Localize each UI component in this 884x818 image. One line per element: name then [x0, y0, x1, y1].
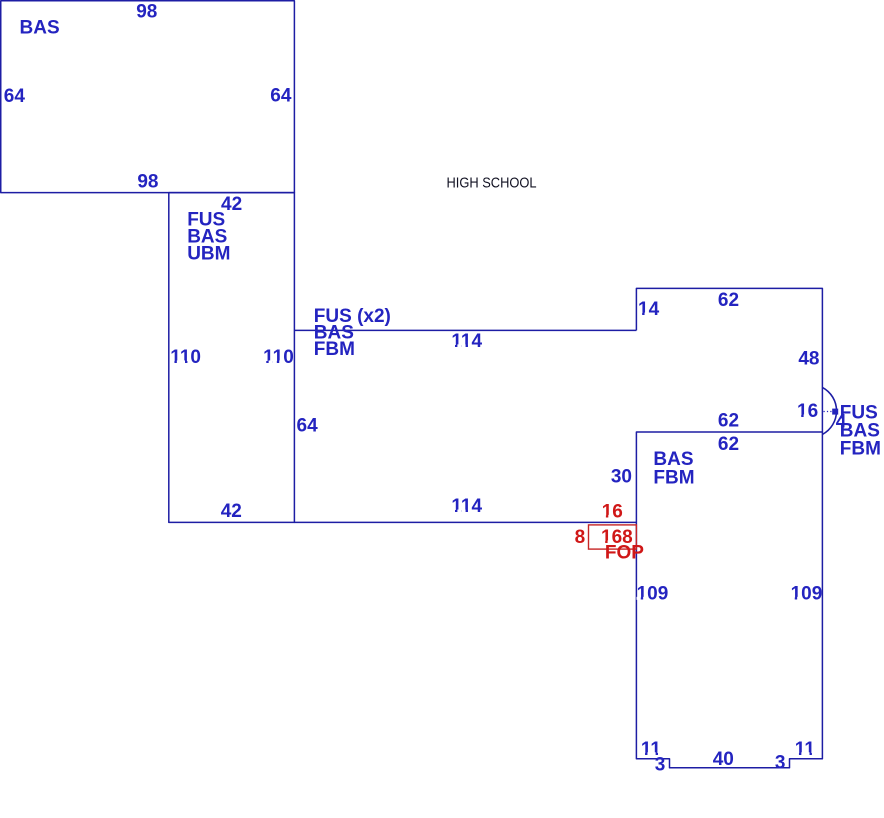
svg-text:48: 48 — [798, 349, 819, 370]
wall: 114 connector top — [294, 329, 636, 331]
dotted leader to square marker — [824, 411, 832, 413]
wall: upper-right building (14 step, 62 top, 48 right) — [636, 288, 822, 432]
svg-text:FBM: FBM — [840, 439, 881, 460]
svg-text:16: 16 — [797, 401, 818, 422]
svg-text:BAS: BAS — [20, 17, 60, 38]
svg-text:FBM: FBM — [653, 467, 694, 488]
svg-text:14: 14 — [638, 299, 660, 320]
svg-text:98: 98 — [137, 172, 158, 193]
building B (FUS/BAS/UBM) outline — [169, 193, 295, 523]
svg-text:11: 11 — [795, 739, 816, 760]
svg-text:62: 62 — [718, 290, 739, 311]
FOP red rectangle — [589, 525, 637, 549]
svg-text:3: 3 — [655, 755, 666, 776]
svg-text:98: 98 — [136, 1, 157, 22]
svg-text:109: 109 — [791, 583, 823, 604]
svg-text:64: 64 — [4, 86, 26, 107]
svg-text:UBM: UBM — [187, 244, 230, 265]
svg-text:64: 64 — [270, 86, 292, 107]
svg-text:HIGH SCHOOL: HIGH SCHOOL — [447, 175, 537, 191]
lower-right building (BAS/FBM) outline with bottom notch — [636, 432, 822, 768]
svg-text:64: 64 — [297, 415, 319, 436]
building A (BAS) outline — [1, 1, 295, 193]
svg-text:110: 110 — [263, 347, 294, 368]
svg-text:62: 62 — [718, 434, 739, 455]
arc bay on right edge — [822, 387, 836, 434]
svg-text:42: 42 — [221, 501, 242, 522]
square marker — [832, 409, 838, 415]
svg-text:109: 109 — [637, 583, 669, 604]
svg-text:114: 114 — [451, 496, 482, 517]
svg-text:3: 3 — [775, 752, 786, 773]
svg-text:40: 40 — [713, 749, 734, 770]
svg-text:FBM: FBM — [314, 339, 355, 360]
svg-text:8: 8 — [575, 527, 586, 548]
svg-text:30: 30 — [611, 466, 632, 487]
svg-text:114: 114 — [451, 331, 482, 352]
wall: 114 connector bottom — [294, 521, 636, 523]
svg-text:110: 110 — [170, 347, 201, 368]
svg-text:16: 16 — [602, 501, 623, 522]
digit-1 foot masks (match Arial-style 1) — [170, 313, 816, 756]
svg-text:62: 62 — [718, 411, 739, 432]
svg-text:FOP: FOP — [605, 543, 644, 564]
